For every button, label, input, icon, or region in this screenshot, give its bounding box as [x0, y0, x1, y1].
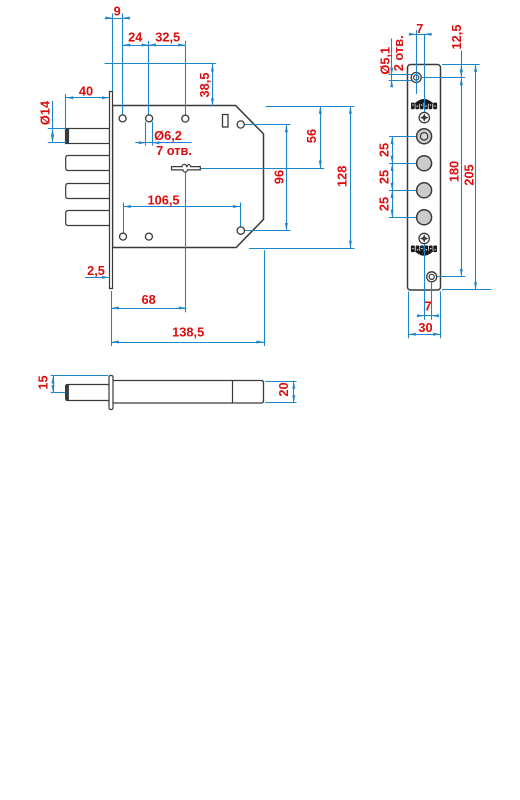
wire: extension plate bottom-right corner down: [440, 292, 442, 339]
dimension 106,5 line with arrows: [123, 205, 241, 208]
wire: extension plate top right for 12,5 and 205: [442, 64, 480, 66]
wire: extension ring hole left: [389, 136, 417, 138]
dimension 20 vertical line with arrows: [292, 381, 295, 403]
wire: extension line for dim 38,5 top: [105, 63, 216, 65]
deadbolt 2: [66, 156, 110, 171]
svg-text:20: 20: [276, 382, 291, 396]
wire: extension bolt centerline for dim 15: [51, 392, 66, 394]
dimension 9 line with outside arrows: [105, 17, 131, 20]
phillips screw bottom: [419, 233, 429, 243]
bolt hole 2: [417, 156, 432, 171]
wire: extension bolt hole 2 left: [389, 163, 417, 165]
wire: extension body bottom right: [249, 248, 355, 250]
dimension 25 chain vertical with arrows: [391, 136, 394, 217]
wire: extension body top edge right: [266, 106, 355, 108]
wire: extension line through hole column 1: [122, 14, 124, 115]
wire: extension body bottom for dim 20: [265, 402, 297, 404]
svg-text:9: 9: [114, 4, 121, 19]
lock body outline: [113, 106, 264, 248]
bottom screw hole: [427, 272, 437, 282]
dimension 128 vertical line with arrows: [349, 106, 352, 248]
svg-text:30: 30: [418, 320, 432, 335]
dimension 24 and 32,5 line with arrows: [123, 44, 186, 47]
svg-text:205: 205: [462, 164, 477, 185]
wire: extension hole center right for 12,5 and 180: [422, 77, 466, 79]
wire: keyhole vertical centerline: [185, 170, 187, 312]
svg-text:12,5: 12,5: [449, 25, 464, 50]
svg-text:96: 96: [272, 170, 287, 184]
brand logo top: [411, 99, 437, 109]
hole A3 top row: [182, 115, 189, 122]
wire: extension 106,5 right to hole: [240, 203, 242, 227]
wire: extension bottom screw hole right for 180: [437, 276, 465, 278]
top screw hole: [411, 73, 421, 83]
wire: extension line hole column 2: [148, 41, 150, 115]
hole C2 bottom row: [145, 233, 152, 240]
wire: extension faceplate bottom for dims 68 and 138,5: [111, 291, 113, 346]
dimension 38,5 vertical line with arrows: [211, 64, 214, 106]
deadbolt 1 (with black tip): [66, 129, 110, 144]
svg-text:2 отв.: 2 отв.: [391, 35, 406, 71]
wire: extension plate bottom right for 205: [442, 289, 492, 291]
side view body interior line: [232, 381, 234, 404]
dimension 7 top line with outside arrows: [409, 33, 432, 36]
wire: extension line hole column 3: [185, 41, 187, 115]
phillips screw top: [419, 112, 429, 122]
svg-text:7: 7: [425, 299, 432, 314]
dimension Ø14 vertical line with arrows: [51, 101, 54, 143]
svg-text:Ø6,2: Ø6,2: [154, 128, 182, 143]
deadbolt 4: [66, 211, 110, 226]
wire: extension through top screw hole: [416, 30, 418, 94]
svg-text:68: 68: [141, 292, 155, 307]
wire: extension lines bolt top and bottom for Ø14: [48, 128, 66, 130]
svg-text:106,5: 106,5: [147, 192, 179, 207]
brand logo bottom (inverted): [411, 246, 437, 256]
wire: extension body right edge bottom: [264, 250, 266, 346]
faceplate outline (front view): [408, 65, 441, 291]
wire: keyhole horizontal centerline: [200, 168, 324, 170]
wire: leader to top screw hole upper tangent: [389, 74, 412, 76]
svg-text:56: 56: [304, 129, 319, 143]
dimension 138,5 line with arrows: [111, 341, 264, 344]
svg-text:2,5: 2,5: [87, 263, 105, 278]
wire: extension bolt hole 4 left: [389, 217, 417, 219]
svg-text:138,5: 138,5: [172, 325, 204, 340]
wire: extension bolt hole 3 left: [389, 190, 417, 192]
dimension Ø5,1 vertical with outside arrows: [390, 39, 393, 88]
wire: extension body top for dim 20: [265, 381, 297, 383]
wire: extension plate end for dim 15: [51, 375, 108, 377]
wire: extension 106,5 left to hole: [123, 203, 125, 233]
wire: extension lines for Ø6,2 hole tangents: [145, 122, 147, 146]
svg-text:25: 25: [377, 143, 392, 157]
hole B2 bottom right: [237, 227, 244, 234]
slot (lever opening): [223, 115, 229, 128]
svg-text:7: 7: [416, 21, 423, 36]
svg-text:Ø14: Ø14: [38, 100, 53, 125]
svg-text:128: 128: [335, 166, 350, 187]
dimension 205 vertical with arrows: [474, 64, 477, 290]
svg-text:7 отв.: 7 отв.: [156, 143, 192, 158]
svg-text:40: 40: [79, 84, 93, 99]
dimension 96 vertical line with arrows: [285, 125, 288, 231]
wire: extension top-right hole for dim 96: [244, 124, 290, 126]
wire: extension plate bottom-left corner down: [408, 292, 410, 339]
hole A1 top row: [119, 115, 126, 122]
bolt hole 4: [417, 210, 432, 225]
wire: faceplate centerline upper: [424, 34, 426, 112]
dimension 56 vertical line with arrows: [319, 106, 322, 168]
hole B1 top right: [237, 121, 244, 128]
dimension 2,5 leader with arrow: [85, 276, 109, 279]
dimension Ø6,2 leader line with outside arrows: [135, 141, 191, 144]
svg-text:180: 180: [446, 161, 461, 182]
hole A2 top row: [146, 115, 153, 122]
side view lock body: [113, 381, 264, 404]
bolt hole with ring (hole 1): [417, 129, 432, 144]
svg-text:24: 24: [128, 30, 143, 45]
wire: extension bottom screw hole down: [431, 282, 433, 320]
svg-text:32,5: 32,5: [155, 30, 180, 45]
dimension 7 bottom line with outside arrows: [417, 314, 439, 317]
svg-text:15: 15: [36, 375, 51, 389]
hole C1 bottom row: [120, 233, 127, 240]
dimension 40 line with arrows: [66, 96, 110, 99]
wire: leader to top screw hole lower tangent: [389, 80, 412, 82]
dimension 180 vertical with arrows: [460, 78, 463, 277]
deadbolt 3: [66, 184, 110, 199]
wire: extension line bolt left end: [65, 94, 67, 128]
side view faceplate bar: [109, 376, 113, 410]
svg-text:25: 25: [377, 197, 392, 211]
faceplate edge (side) in main view: [110, 92, 113, 289]
wire: extension bottom-right hole for dim 96: [245, 230, 291, 232]
dimension 12,5 with arrows: [460, 51, 463, 78]
side view bolt with black tip: [66, 385, 110, 401]
wire: extension line of body left edge for dim 9: [112, 14, 114, 92]
wire: faceplate centerline lower: [424, 244, 426, 320]
dimension 68 line with arrows: [111, 307, 186, 310]
keyhole profile: [172, 164, 201, 172]
svg-text:25: 25: [377, 170, 392, 184]
bolt hole 3: [417, 183, 432, 198]
dimension 15 vertical line with arrows: [52, 376, 55, 393]
svg-text:38,5: 38,5: [197, 73, 212, 98]
dimension 30 line with arrows: [408, 333, 441, 336]
